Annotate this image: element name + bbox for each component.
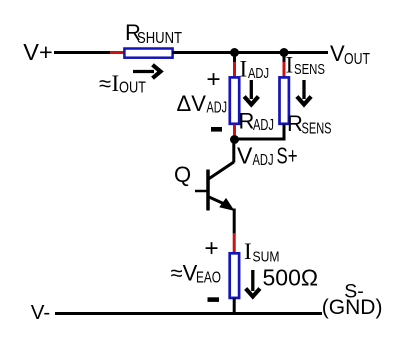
- svg-text:(GND): (GND): [322, 296, 383, 319]
- svg-text:ΔV: ΔV: [177, 91, 207, 116]
- junction node at top of R_SENS: [280, 48, 289, 57]
- svg-text:SENS: SENS: [294, 61, 325, 78]
- resistor R_SUM (500 ohm): [230, 253, 239, 298]
- svg-text:V-: V-: [31, 301, 50, 324]
- arrow I_ADJ (down): [244, 80, 258, 105]
- svg-text:ADJ: ADJ: [253, 117, 274, 134]
- label I_ADJ: [240, 56, 270, 82]
- wire stub below node to R_SENS: [283, 53, 286, 63]
- wire from R_SENS bottom to V_ADJ node: [236, 125, 284, 140]
- label V_ADJ S+: [237, 143, 298, 170]
- wire bottom rail: [55, 312, 322, 315]
- svg-text:EAO: EAO: [196, 270, 221, 287]
- svg-text:V: V: [237, 143, 253, 169]
- svg-text:500Ω: 500Ω: [263, 265, 319, 291]
- transistor Q base bar: [206, 170, 210, 211]
- svg-text:ADJ: ADJ: [207, 100, 228, 117]
- wire red segment above R_SENS: [283, 62, 286, 77]
- svg-text:SUM: SUM: [253, 249, 280, 266]
- svg-text:V: V: [330, 41, 345, 66]
- svg-text:I: I: [240, 56, 248, 81]
- junction node at top of R_ADJ: [230, 48, 239, 57]
- arrow I_SUM (down): [246, 270, 260, 297]
- arrow I_OUT (right): [133, 65, 161, 78]
- svg-text:+: +: [206, 66, 220, 93]
- wire top rail left (V+ to shunt): [54, 51, 110, 54]
- arrow I_SENS (down): [297, 80, 311, 105]
- label minus of V_EAO: [208, 297, 220, 302]
- label delta V_ADJ: [177, 91, 228, 117]
- resistor R_SHUNT: [124, 49, 172, 58]
- wire top rail right (shunt to V_OUT): [173, 51, 329, 54]
- wire red segment below R_ADJ: [233, 125, 236, 138]
- svg-text:SENS: SENS: [302, 121, 332, 138]
- svg-text:S+: S+: [277, 143, 298, 169]
- transistor Q collector diagonal: [209, 162, 234, 179]
- label approx I_OUT: [99, 71, 146, 97]
- label I_SENS: [286, 53, 326, 79]
- svg-text:R: R: [287, 111, 303, 136]
- transistor Q emitter diagonal: [209, 197, 225, 204]
- label I_SUM: [244, 239, 280, 266]
- wire stub below R_SUM to bottom rail: [233, 299, 236, 314]
- svg-text:ADJ: ADJ: [248, 65, 269, 82]
- svg-text:Q: Q: [174, 162, 191, 187]
- svg-text:+: +: [204, 235, 218, 262]
- svg-text:OUT: OUT: [119, 80, 146, 97]
- svg-text:R: R: [239, 109, 255, 134]
- resistor R_SENS: [280, 77, 289, 123]
- svg-text:≈V: ≈V: [171, 261, 198, 286]
- svg-text:≈: ≈: [99, 71, 111, 96]
- svg-text:V+: V+: [23, 39, 52, 65]
- junction node V_ADJ: [230, 135, 239, 144]
- label V_OUT: [330, 41, 370, 68]
- transistor Q base lead: [195, 190, 207, 193]
- svg-text:I: I: [286, 53, 294, 78]
- svg-text:OUT: OUT: [344, 51, 370, 68]
- svg-text:SHUNT: SHUNT: [137, 30, 182, 47]
- wire red segment left of R_SHUNT: [110, 51, 124, 54]
- label R_ADJ: [239, 109, 275, 135]
- label minus of delta V_ADJ: [211, 127, 222, 132]
- svg-text:ADJ: ADJ: [253, 152, 274, 169]
- transistor Q emitter arrowhead: [221, 199, 234, 210]
- label approx V_EAO: [171, 261, 222, 287]
- wire emitter vertical: [233, 209, 236, 235]
- wire stub below node to R_ADJ: [233, 53, 236, 63]
- label R_SHUNT: [125, 20, 182, 47]
- wire red segment above R_SUM: [233, 233, 236, 253]
- resistor R_ADJ: [230, 77, 239, 123]
- label R_SENS: [287, 111, 332, 138]
- wire collector vertical from V_ADJ node: [232, 140, 235, 163]
- wire red segment above R_ADJ: [233, 62, 236, 77]
- svg-text:I: I: [244, 239, 252, 264]
